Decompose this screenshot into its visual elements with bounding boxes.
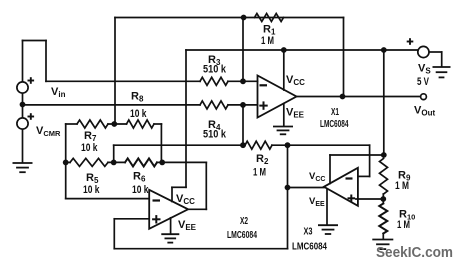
svg-text:510 k: 510 k <box>203 129 227 141</box>
svg-text:10 k: 10 k <box>130 108 147 120</box>
svg-text:X2: X2 <box>240 215 248 227</box>
svg-text:5 V: 5 V <box>417 76 429 88</box>
svg-text:X1: X1 <box>331 106 339 118</box>
svg-text:LMC6084: LMC6084 <box>227 229 257 241</box>
svg-text:1 M: 1 M <box>261 35 274 47</box>
svg-text:LMC6084: LMC6084 <box>292 241 327 253</box>
svg-text:SeekIC.com: SeekIC.com <box>376 245 453 261</box>
svg-text:1 M: 1 M <box>397 219 410 231</box>
svg-text:10 k: 10 k <box>132 184 149 196</box>
svg-text:X3: X3 <box>304 226 313 238</box>
svg-text:10 k: 10 k <box>81 142 98 154</box>
svg-text:510 k: 510 k <box>203 64 227 76</box>
svg-text:10 k: 10 k <box>83 184 100 196</box>
svg-text:LMC6084: LMC6084 <box>320 118 349 130</box>
svg-text:1 M: 1 M <box>253 167 266 179</box>
svg-text:1 M: 1 M <box>395 180 409 192</box>
